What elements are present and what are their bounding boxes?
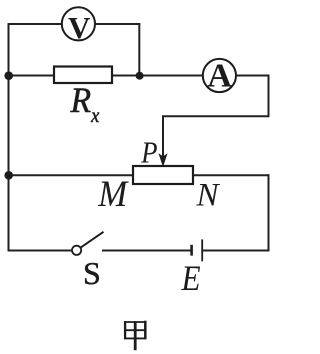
svg-text:M: M	[97, 173, 129, 214]
wire slider vertical into arrow	[162, 115, 164, 157]
terminal label M	[97, 173, 129, 214]
svg-text:Rx: Rx	[70, 81, 100, 127]
wire left vertical main	[8, 23, 10, 251]
wire bottom left to switch	[9, 250, 72, 252]
svg-text:S: S	[83, 255, 101, 291]
wire resistor row left	[9, 75, 55, 77]
svg-text:A: A	[207, 57, 232, 94]
potentiometer slider arrow	[159, 155, 166, 166]
switch S pivot circle	[72, 246, 81, 255]
wire right vertical lower	[268, 174, 270, 251]
wire resistor row right to ammeter	[112, 75, 202, 77]
battery E long plate	[201, 239, 203, 261]
caption 甲	[124, 321, 146, 351]
wire top-left horizontal	[9, 23, 62, 25]
ammeter A1 circle	[203, 59, 236, 92]
wire M side	[9, 174, 134, 176]
resistor Rx body	[54, 67, 112, 84]
wire switch to battery	[102, 250, 191, 252]
wire battery to bottom-right corner	[203, 250, 269, 252]
node junction dot at voltmeter tap	[136, 72, 144, 80]
wire ammeter to right vertical	[237, 75, 270, 77]
node junction dot left upper	[4, 71, 13, 80]
wire N side	[193, 174, 269, 176]
switch S blade	[81, 232, 104, 248]
resistor label Rx	[70, 81, 100, 127]
node junction dot left lower	[4, 171, 13, 180]
battery label E	[181, 259, 201, 298]
wire top-right horizontal	[96, 23, 141, 25]
wire right drop from top corner to node	[138, 23, 140, 75]
svg-text:E: E	[181, 259, 201, 298]
voltmeter V1 circle	[62, 7, 95, 40]
potentiometer body MN	[133, 166, 193, 184]
svg-text:N: N	[196, 178, 221, 214]
svg-text:V: V	[68, 10, 91, 45]
battery E short plate	[190, 245, 193, 256]
potentiometer label P	[140, 136, 157, 170]
svg-text:P: P	[140, 136, 157, 170]
wire right vertical upper	[268, 75, 270, 117]
wire jog horizontal to slider	[163, 115, 269, 117]
